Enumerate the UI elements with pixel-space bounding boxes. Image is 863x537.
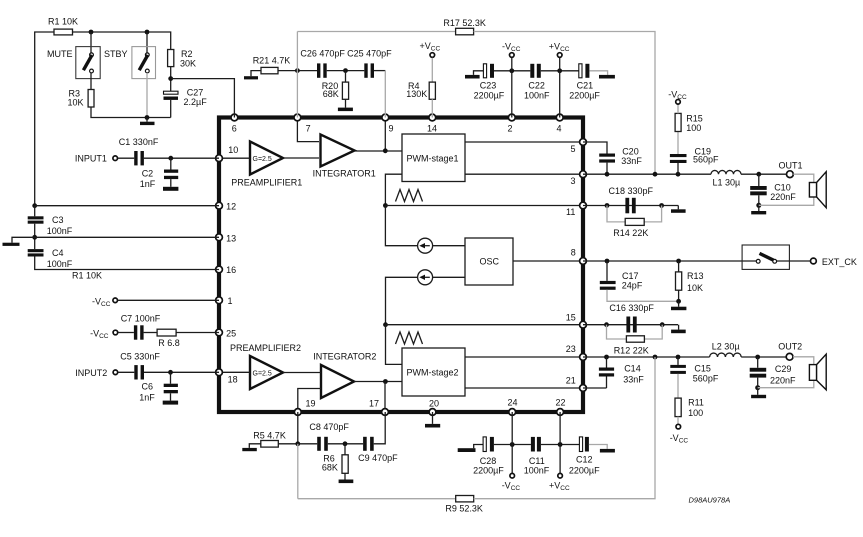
- resistor R11: [675, 374, 704, 418]
- wire OSC to CS2: [433, 276, 465, 278]
- wire pin3 row to L1: [583, 173, 711, 175]
- wire R9 net down from R5 node (grey): [297, 444, 299, 499]
- svg-text:2200µF: 2200µF: [569, 465, 600, 475]
- wire PWM-stage2 to pin21: [465, 387, 583, 389]
- svg-text:OSC: OSC: [480, 256, 500, 266]
- pin 4: [556, 114, 563, 121]
- svg-text:3: 3: [571, 176, 576, 186]
- ground below R6: [339, 473, 354, 483]
- capacitor C19: [670, 146, 719, 174]
- wire C3 to ground node: [34, 224, 36, 249]
- pin 8: [580, 258, 587, 265]
- svg-text:C25 470pF: C25 470pF: [347, 49, 392, 59]
- current source CS1: [418, 238, 433, 253]
- capacitor C8: [309, 422, 349, 451]
- svg-text:100nF: 100nF: [47, 226, 73, 236]
- capacitor C6: [139, 372, 178, 402]
- wire R6.8 to pin25: [176, 332, 219, 334]
- svg-text:18: 18: [228, 375, 238, 385]
- svg-text:R2: R2: [181, 49, 193, 59]
- junction C17 tap: [605, 259, 610, 264]
- junction R6 tap: [343, 441, 348, 446]
- wire pin17 up to integrator2 output node: [384, 382, 386, 413]
- svg-text:EXT_CK: EXT_CK: [822, 257, 857, 267]
- pin 17: [382, 409, 389, 416]
- pin 9: [382, 114, 389, 121]
- junction R2/C27/pin6 node: [168, 76, 173, 81]
- svg-text:C20: C20: [622, 146, 639, 156]
- wire feedback node to PWM-stage2 upper-left: [386, 325, 403, 365]
- svg-text:MUTE: MUTE: [47, 49, 73, 59]
- wire PWM-stage1 to pin5: [465, 141, 583, 143]
- internal resistor zigzag channel 1: [396, 190, 423, 202]
- ground below R20: [338, 99, 353, 111]
- capacitor C15: [670, 357, 719, 384]
- svg-text:C26 470pF: C26 470pF: [300, 49, 345, 59]
- junction R20 tap: [343, 68, 348, 73]
- wire integrator1 output to PWM-stage1: [355, 150, 402, 152]
- svg-text:STBY: STBY: [104, 49, 128, 59]
- pin 12: [216, 202, 223, 209]
- wire CS1 to OSC: [433, 245, 465, 247]
- capacitor C11: [524, 437, 550, 475]
- ground at R21: [244, 71, 261, 80]
- svg-text:G=2.5: G=2.5: [253, 371, 272, 378]
- wire PWM-stage1 lower-left to feedback node: [385, 174, 402, 205]
- wire C27 to bottom rail: [170, 100, 172, 118]
- wire pin7 node down to pin7 (grey): [296, 71, 298, 118]
- junction speaker return tap: [756, 203, 761, 208]
- junction pin13 row ground node: [32, 235, 37, 240]
- wire feedback node down to CS1: [385, 206, 417, 246]
- capacitor C5: [120, 351, 160, 379]
- junction C16 left: [604, 322, 609, 327]
- capacitor C3: [28, 206, 73, 236]
- svg-text:L2 30µ: L2 30µ: [712, 342, 740, 352]
- svg-text:PREAMPLIFIER1: PREAMPLIFIER1: [231, 177, 302, 187]
- junction integrator2 output node: [383, 379, 388, 384]
- pin 23: [580, 354, 587, 361]
- svg-text:24pF: 24pF: [622, 280, 643, 290]
- capacitor C29: [750, 357, 796, 386]
- svg-text:C16 330pF: C16 330pF: [609, 303, 654, 313]
- svg-text:33nF: 33nF: [623, 375, 644, 385]
- node +Vcc below C11: [549, 445, 570, 493]
- resistor R13: [676, 261, 704, 301]
- PWM-stage1 U-block: [402, 134, 465, 182]
- svg-text:100: 100: [686, 123, 701, 133]
- svg-text:C5 330nF: C5 330nF: [120, 351, 160, 361]
- capacitor C10: [750, 174, 796, 202]
- wire C25 to pin9 drop: [374, 70, 385, 72]
- junction C14 top: [604, 355, 609, 360]
- svg-text:R21 4.7K: R21 4.7K: [253, 56, 291, 66]
- IC body TDA8920 outline: [219, 118, 583, 413]
- wire C11 to C12: [541, 444, 580, 446]
- junction C18 left: [605, 203, 610, 208]
- PWM-stage2 block: [402, 348, 465, 396]
- svg-text:PREAMPLIFIER2: PREAMPLIFIER2: [230, 343, 301, 353]
- switch MUTE: [47, 47, 100, 79]
- capacitor C22: [524, 64, 550, 101]
- svg-text:10K: 10K: [68, 98, 84, 108]
- wire pin7 to integrator1 upper input: [297, 118, 319, 142]
- wire R2 to junction to C27: [170, 67, 172, 92]
- wire -Vcc to C7: [118, 332, 134, 334]
- resistor R4: [406, 81, 435, 99]
- svg-text:100nF: 100nF: [524, 90, 550, 100]
- svg-text:C8 470pF: C8 470pF: [309, 422, 349, 432]
- svg-text:C29: C29: [775, 364, 792, 374]
- junction R17 net/pin3: [653, 172, 658, 177]
- capacitor C2: [140, 158, 178, 189]
- pin 1: [216, 297, 223, 304]
- svg-text:C2: C2: [142, 169, 154, 179]
- wire R3 to bottom rail to C27: [91, 107, 171, 118]
- wire C21 to right ground (grey): [589, 71, 607, 75]
- junction C19/pin3: [676, 172, 681, 177]
- wire STBY switch down (grey): [146, 73, 148, 118]
- svg-text:1nF: 1nF: [139, 392, 155, 402]
- svg-text:R13: R13: [687, 271, 704, 281]
- pin 6: [231, 114, 238, 121]
- wire pin19 to integrator2 lower input: [298, 389, 321, 413]
- junction C16 right: [660, 322, 665, 327]
- ground below C10: [751, 195, 766, 214]
- junction feedback node channel 2: [383, 322, 388, 327]
- svg-text:R12 22K: R12 22K: [614, 346, 649, 356]
- switch EXT_CK: [742, 245, 789, 269]
- junction stby drop: [145, 30, 150, 35]
- node -Vcc above pin2: [502, 42, 521, 71]
- svg-text:10: 10: [228, 145, 238, 155]
- svg-text:2.2µF: 2.2µF: [184, 97, 208, 107]
- svg-text:INPUT2: INPUT2: [75, 368, 107, 378]
- ground left of C23: [465, 71, 483, 79]
- svg-text:15: 15: [566, 313, 576, 323]
- svg-text:C9 470pF: C9 470pF: [358, 453, 398, 463]
- pin 14: [429, 114, 436, 121]
- wire C9 up to pin17: [374, 412, 386, 444]
- wire pin22 down: [559, 412, 561, 445]
- wire C12 to right ground (grey): [589, 445, 607, 449]
- wire PWM-stage2 to pin23: [465, 356, 583, 358]
- resistor R15: [675, 113, 703, 154]
- wire R9 net horizontal left (grey): [298, 498, 456, 500]
- current source CS2: [418, 270, 433, 285]
- capacitor C1: [119, 137, 159, 165]
- svg-text:21: 21: [566, 376, 576, 386]
- svg-text:6: 6: [232, 124, 237, 134]
- svg-text:D98AU978A: D98AU978A: [689, 495, 731, 504]
- pin 24: [509, 409, 516, 416]
- wire pin11 row external: [583, 205, 678, 207]
- pin 10: [216, 155, 223, 162]
- svg-text:4: 4: [557, 124, 562, 134]
- junction pin12 row: [32, 203, 37, 208]
- wire pin24 down: [511, 412, 513, 445]
- svg-text:C3: C3: [52, 215, 64, 225]
- wire C4 to pin16 row: [35, 257, 219, 270]
- wire +Vcc to R4 (grey): [431, 58, 433, 82]
- svg-text:C17: C17: [622, 271, 639, 281]
- junction mute drop: [89, 30, 94, 35]
- wire R17 net to OUT1 node (grey): [474, 32, 655, 175]
- junction C10 tap: [756, 172, 761, 177]
- resistor R6.8: [157, 329, 180, 348]
- capacitor C4: [28, 248, 73, 269]
- wire C5 to pin18: [144, 371, 219, 373]
- ground right of C18: [671, 206, 686, 213]
- svg-text:R5 4.7K: R5 4.7K: [253, 431, 286, 441]
- node +Vcc above pin4: [549, 42, 570, 71]
- junction integrator1 output node: [383, 148, 388, 153]
- wire pin19 down to R5 row: [297, 412, 299, 444]
- wire R21 to pin7 node: [278, 70, 317, 72]
- resistor R12 loop (grey): [607, 325, 663, 356]
- svg-text:13: 13: [226, 233, 236, 243]
- wire switch to EXT_CK terminal: [777, 260, 811, 262]
- svg-text:68K: 68K: [323, 89, 339, 99]
- wire preamplifier2 output to integrator2: [283, 372, 321, 374]
- wire PWM-stage1 to pin3: [465, 173, 583, 175]
- pin 7: [294, 114, 301, 121]
- capacitor C27: [164, 88, 208, 108]
- wire L1 to OUT1: [741, 173, 787, 175]
- wire MUTE switch to R3: [90, 73, 92, 90]
- capacitor C17: [600, 261, 643, 290]
- wire pin9 drop to integrator1 output node: [384, 118, 386, 152]
- switch STBY: [104, 47, 156, 79]
- ground below mute rail: [140, 118, 155, 126]
- svg-text:R1 10K: R1 10K: [48, 17, 78, 27]
- ground right of C21: [599, 75, 615, 79]
- wire pin8 row external: [583, 260, 756, 262]
- node OUT2: [778, 342, 802, 361]
- svg-text:L1 30µ: L1 30µ: [713, 178, 741, 188]
- svg-text:220nF: 220nF: [770, 192, 796, 202]
- svg-text:16: 16: [226, 265, 236, 275]
- svg-text:7: 7: [306, 124, 311, 134]
- svg-text:24: 24: [508, 398, 518, 408]
- wire node to pin6: [171, 79, 235, 118]
- junction C15 tap: [676, 355, 681, 360]
- wire pin23 row to L2: [583, 356, 710, 358]
- wire pin13 row: [35, 236, 219, 238]
- svg-text:22: 22: [556, 398, 566, 408]
- ground left of C28: [458, 445, 483, 453]
- svg-text:R9 52.3K: R9 52.3K: [445, 504, 483, 514]
- capacitor C12 electrolytic: [569, 437, 600, 475]
- junction C6 tap: [168, 370, 173, 375]
- wire C7 to R6.8: [144, 332, 158, 334]
- svg-text:C23: C23: [480, 80, 497, 90]
- svg-text:C22: C22: [528, 80, 545, 90]
- inductor L1: [711, 170, 741, 187]
- svg-text:2: 2: [508, 124, 513, 134]
- wire left rail top corner to R1: [35, 32, 54, 206]
- wire C22 to C21: [541, 70, 579, 72]
- wire INPUT1 to C1: [118, 157, 134, 159]
- capacitor C26: [300, 49, 345, 78]
- svg-text:C7 100nF: C7 100nF: [121, 313, 161, 323]
- wire C17 to R13 ground (grey): [607, 290, 679, 302]
- pin 19: [294, 409, 301, 416]
- ground below R13: [671, 301, 686, 310]
- pin 5: [580, 139, 587, 146]
- svg-text:25: 25: [226, 329, 236, 339]
- junction pin7 node: [295, 68, 300, 73]
- ground below C6: [163, 393, 178, 404]
- svg-text:8: 8: [571, 247, 576, 257]
- svg-text:R11: R11: [688, 398, 704, 408]
- junction -Vcc tap: [509, 68, 514, 73]
- capacitor C28 electrolytic: [473, 437, 504, 475]
- wire INPUT2 to C5: [118, 371, 134, 373]
- resistor R21: [253, 56, 291, 74]
- node -Vcc above R15: [668, 90, 687, 114]
- wire pin11 row internal: [385, 205, 583, 207]
- wire L2 to OUT2: [741, 356, 786, 358]
- svg-text:560pF: 560pF: [693, 154, 719, 164]
- svg-text:17: 17: [369, 399, 379, 409]
- wire C28 to C11: [494, 444, 531, 446]
- wire pin18 to preamplifier2 input: [219, 371, 250, 373]
- capacitor C18: [609, 186, 654, 214]
- wire -Vcc tap to pin2: [511, 71, 513, 118]
- resistor R6: [322, 444, 348, 474]
- wire CS2 to feedback node channel 2: [386, 277, 418, 324]
- svg-text:C14: C14: [624, 364, 641, 374]
- ground right of C16: [671, 325, 686, 334]
- svg-text:PWM-stage2: PWM-stage2: [407, 368, 459, 378]
- junction pin24 tap: [510, 442, 515, 447]
- junction C20/pin3: [605, 172, 610, 177]
- svg-text:C15: C15: [694, 364, 711, 374]
- node EXT_CK: [811, 257, 857, 267]
- svg-text:C1 330nF: C1 330nF: [119, 137, 159, 147]
- resistor R17: [443, 18, 486, 35]
- svg-text:C18 330pF: C18 330pF: [609, 186, 654, 196]
- svg-text:33nF: 33nF: [621, 156, 642, 166]
- pin 18: [216, 369, 223, 376]
- wire C14 to pin21 row: [606, 377, 608, 389]
- node OUT1: [779, 161, 803, 178]
- resistor R20: [322, 71, 349, 100]
- wire C23 to C22: [494, 70, 530, 72]
- junction +Vcc tap: [557, 68, 562, 73]
- wire C26 to C25: [327, 70, 365, 72]
- pin 25: [216, 329, 223, 336]
- svg-text:C12: C12: [576, 455, 593, 465]
- svg-text:100: 100: [688, 408, 703, 418]
- pin 11: [580, 202, 587, 209]
- svg-text:R1 10K: R1 10K: [72, 271, 102, 281]
- wire C8 to C9: [328, 443, 363, 445]
- op-amp preamplifier2 G=2.5: [230, 343, 301, 389]
- capacitor C16: [609, 303, 654, 333]
- OSC block: [465, 238, 513, 285]
- junction speaker return tap: [755, 385, 760, 390]
- svg-text:130K: 130K: [406, 89, 427, 99]
- op-amp preamplifier1 G=2.5: [231, 142, 302, 188]
- svg-text:R15: R15: [686, 114, 703, 124]
- svg-text:2200µF: 2200µF: [474, 90, 505, 100]
- wire OUT1 to speaker (grey): [793, 174, 814, 182]
- wire speaker return to C29 ground (grey): [758, 380, 814, 387]
- capacitor C25: [347, 49, 392, 78]
- junction R13 tap: [676, 259, 681, 264]
- junction C2 tap: [168, 156, 173, 161]
- svg-text:G=2.5: G=2.5: [253, 156, 272, 163]
- junction pin22 tap: [558, 442, 563, 447]
- capacitor C20: [599, 146, 642, 166]
- pin 21: [580, 385, 587, 392]
- svg-text:14: 14: [427, 124, 437, 134]
- svg-text:560pF: 560pF: [693, 374, 719, 384]
- svg-text:9: 9: [389, 124, 394, 134]
- resistor R2: [168, 49, 196, 69]
- node INPUT1: [75, 153, 118, 163]
- svg-text:C11: C11: [529, 456, 545, 466]
- resistor R3: [68, 89, 95, 108]
- resistor R1: [48, 17, 78, 35]
- junction C18 right: [659, 203, 664, 208]
- wire to MUTE switch: [90, 32, 92, 53]
- junction ground node mute rail: [145, 115, 150, 120]
- resistor R9: [445, 496, 483, 514]
- capacitor C14: [599, 357, 644, 385]
- svg-text:19: 19: [306, 399, 316, 409]
- junction pin19/R5/C8/R9 node: [295, 441, 300, 446]
- svg-text:12: 12: [226, 202, 236, 212]
- node -Vcc below R11: [670, 417, 689, 445]
- capacitor C23 electrolytic: [474, 64, 505, 101]
- wire pin10 to preamplifier1 input: [219, 157, 250, 159]
- wire pin9 vertical (grey): [384, 71, 386, 118]
- junction R9 net/pin23: [653, 355, 658, 360]
- wire R1 to R2 top corner: [73, 32, 171, 50]
- svg-text:100nF: 100nF: [47, 259, 73, 269]
- pin 15: [580, 321, 587, 328]
- capacitor C9: [358, 437, 398, 463]
- speaker LS1: [809, 172, 826, 208]
- wire OUT2 to speaker (grey): [793, 357, 814, 365]
- wire +Vcc tap to pin4: [559, 71, 561, 118]
- pin 13: [216, 234, 223, 241]
- svg-text:1: 1: [228, 296, 233, 306]
- svg-text:5: 5: [571, 144, 576, 154]
- wire C20 to pin3 row: [606, 163, 608, 175]
- svg-text:100nF: 100nF: [524, 465, 550, 475]
- junction R13 ground node: [676, 299, 681, 304]
- resistor R5: [253, 431, 286, 448]
- svg-text:220nF: 220nF: [770, 376, 796, 386]
- svg-text:C27: C27: [187, 88, 204, 98]
- internal resistor zigzag channel 2: [396, 332, 423, 344]
- wire C1 to pin10: [144, 157, 219, 159]
- pin 3: [580, 171, 587, 178]
- wire pin12 row: [35, 205, 219, 207]
- wire speaker return to C10 ground (grey): [759, 197, 814, 205]
- wire integrator2 output to PWM-stage2: [354, 381, 402, 383]
- op-amp integrator1: [313, 135, 376, 179]
- svg-text:OUT2: OUT2: [778, 342, 802, 352]
- svg-text:R 6.8: R 6.8: [158, 338, 180, 348]
- svg-text:INPUT1: INPUT1: [75, 153, 107, 163]
- svg-text:23: 23: [566, 344, 576, 354]
- wire pin15 row external: [583, 324, 678, 326]
